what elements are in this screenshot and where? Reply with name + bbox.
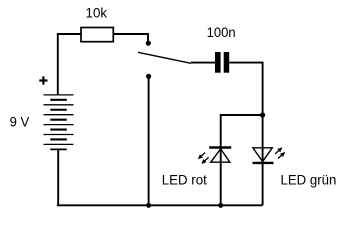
- battery BT1 plus sign: [39, 76, 47, 84]
- wire battery minus to bottom rail: [58, 149, 263, 205]
- wire switch lower contact to bottom rail: [148, 76, 150, 205]
- node junction dot right rail / LED branch: [260, 112, 265, 117]
- LED D2 green triangle (anode up, pointing down): [253, 148, 272, 162]
- LED D1 light arrow 1: [198, 153, 205, 159]
- svg-text:10k: 10k: [86, 5, 108, 21]
- LED D1 red cathode bar: [209, 146, 231, 148]
- resistor R1 10k body: [81, 28, 113, 42]
- LED D2 green cathode bar: [253, 162, 274, 164]
- wire capacitor to right rail: [229, 63, 262, 113]
- svg-text:100n: 100n: [207, 24, 236, 40]
- svg-text:9 V: 9 V: [10, 114, 30, 130]
- capacitor C1 right plate: [224, 52, 230, 73]
- switch S1 blade: [138, 52, 191, 63]
- wire LED branch top rail: [221, 115, 263, 162]
- wire right rail through green LED to bottom rail: [262, 115, 264, 205]
- svg-text:LED rot: LED rot: [162, 171, 207, 187]
- svg-text:LED grün: LED grün: [281, 171, 337, 187]
- node junction dot red LED branch / bottom rail: [218, 203, 223, 208]
- switch S1 lower contact dot: [146, 74, 151, 79]
- battery BT1 plates: [44, 95, 74, 149]
- LED D2 light arrow 2: [278, 152, 285, 158]
- wire resistor to switch upper contact: [113, 34, 148, 41]
- wire top rail left (battery + to resistor): [58, 34, 81, 95]
- wire switch blade to capacitor: [191, 62, 215, 64]
- LED D2 light arrow 1: [275, 148, 282, 154]
- LED D1 light arrow 2: [202, 157, 209, 163]
- LED D1 red triangle (anode up): [211, 149, 230, 162]
- wire red LED to bottom rail: [220, 162, 222, 205]
- capacitor C1 left plate: [215, 52, 221, 73]
- switch S1 upper contact dot: [146, 41, 151, 46]
- node junction dot switch branch / bottom rail: [146, 203, 151, 208]
